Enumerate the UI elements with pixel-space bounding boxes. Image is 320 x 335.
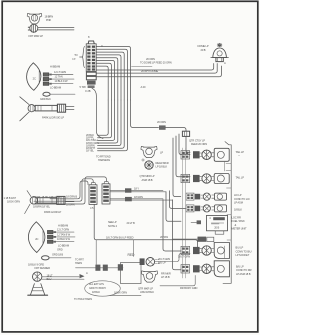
license lamp T3: harness pins [186,193,194,200]
svg-text:18 YEL: 18 YEL [86,149,95,153]
parking lamp P2 bulb [30,197,37,204]
labels: fender lamp F1 [35,266,53,281]
svg-text:C: C [101,44,103,48]
junction box (bottom middle left) [121,263,142,284]
label under ground strap G2 [28,262,44,266]
connector C100 lower section pins [86,72,96,88]
labels: harness band to front lamps [4,195,61,209]
label: M1 circuit name [29,15,54,39]
backup lamp T5: lamp socket housing [212,243,230,259]
stop lamp T2: lamp socket housing [212,174,230,184]
socket/bulb of lamp M1 [28,24,38,32]
bulb B3 (backup) [140,258,160,267]
svg-text:18 BRN: 18 BRN [66,202,75,206]
backup lamp T5: bulb [200,246,212,255]
lamp M3 (rear marker, bottom) [141,271,157,282]
svg-text:RR MKR: RR MKR [161,272,171,276]
svg-text:10 BLK 9 W: 10 BLK 9 W [57,237,71,241]
label column right of bundle [88,35,103,48]
labels: headlamp H1 circuits [50,65,68,90]
svg-text:RED: RED [128,253,136,257]
svg-text:B/U LP: B/U LP [236,265,244,269]
svg-text:GRD 18 B: GRD 18 B [52,253,63,257]
labels: bulb B2 [140,161,169,182]
fender lamp F1 pedestal [28,284,48,296]
svg-text:FRT FENDER: FRT FENDER [35,266,51,270]
svg-text:FEED 20 ORN: FEED 20 ORN [191,142,207,146]
connector C7A (fuel box left pin) [191,220,201,224]
wire: drop to junction blobs [96,240,133,265]
connector C1 of headlamp H1 (3 pins) [43,73,52,86]
wire from lamp M3 area right [160,275,195,285]
parking lamp P1 (left) reflector wings [20,97,29,121]
svg-text:20 TAN: 20 TAN [160,235,168,239]
wire pair from fender lamp F1 [42,274,85,279]
connector C2 of parking lamp P1 (hatched) [57,104,65,112]
backup lamp T6: socket connector [193,265,200,272]
svg-text:18 BRN 18 YEL: 18 BRN 18 YEL [33,205,51,209]
svg-text:QTR MKR LP: QTR MKR LP [138,287,153,291]
label under connectors C4 C5 [90,206,94,210]
svg-text:20 ORN: 20 ORN [146,57,155,61]
wire: short stub with label above dome feed [132,57,172,67]
svg-text:18 DK GRN: 18 DK GRN [114,291,127,295]
wire: loop from C100 bottom down left side of bundle [92,88,103,138]
svg-text:PARK & DIR SIG LP: PARK & DIR SIG LP [42,116,64,120]
wires right of connector C5 to rear [110,186,173,201]
svg-text:LOC RR: LOC RR [232,216,241,220]
svg-text:GRD BLK: GRD BLK [40,97,51,101]
svg-text:18 BLK: 18 BLK [234,207,242,211]
backup lamp T5: harness pins [181,246,190,254]
headlamp H1 (left upper) [27,63,41,91]
svg-text:20 B: 20 B [214,226,219,230]
labels: headlamp H2 circuits [57,224,71,252]
label under connector C100 [80,85,91,93]
svg-text:QTR CTSY LP: QTR CTSY LP [189,138,205,142]
svg-text:REAR MKR: REAR MKR [156,161,169,165]
svg-text:FUEL TANK: FUEL TANK [232,219,245,223]
labels: stop lamp T2 [236,176,245,180]
svg-text:18 GRN B: 18 GRN B [66,194,77,198]
svg-text:LP SOCKET: LP SOCKET [236,253,250,257]
wire: lower cross harness run [76,264,124,271]
label: P1 name [42,116,64,120]
svg-text:QTR MKR LP: QTR MKR LP [140,174,155,178]
connector C8 of headlamp H2 [47,230,56,243]
svg-text:12 LT GRN: 12 LT GRN [57,228,69,232]
stop lamp T2: bulb [200,174,212,183]
svg-text:C 2B: C 2B [85,89,91,93]
svg-text:LP ASM: LP ASM [234,201,243,205]
license lamp T3: socket connector [195,194,200,200]
parking lamp P2 reflector wings [25,191,31,214]
svg-text:METER UNIT: METER UNIT [232,226,247,230]
lamp M1 (front side marker, top left) [27,13,42,23]
lamp M2 (rear qtr marker) [141,146,163,157]
svg-text:TAIL LP: TAIL LP [236,176,245,180]
svg-text:LIC LP: LIC LP [234,193,242,197]
labels: backup lamp T5 [178,246,252,259]
svg-text:12 LT GRN: 12 LT GRN [54,70,66,74]
ground strap G2 below headlamp H2 [42,253,72,260]
svg-text:ASM 18 B: ASM 18 B [142,178,153,182]
labels near fender lamp wires [75,258,88,276]
stop lamp T2: harness pins [181,174,190,182]
parking lamp P1 housing body [35,105,57,111]
svg-text:12 TAN: 12 TAN [55,74,63,78]
svg-text:TO TRLR HARN: TO TRLR HARN [74,297,92,301]
brace and label for connector C100 [72,47,84,68]
wire bundle: fan-out from C100 to vertical run [97,47,131,101]
svg-text:*: * [239,154,240,158]
wire from bulb B3 to harness [155,253,190,261]
svg-text:FRT MKR LP: FRT MKR LP [29,34,44,38]
svg-text:ALL EXT LPS: ALL EXT LPS [89,282,104,286]
license lamp T3: bulb [201,193,210,200]
svg-text:GRD TO BODY: GRD TO BODY [89,286,106,290]
ground strap G1 below headlamp H1 [40,92,75,101]
svg-text:5 708: 5 708 [80,85,87,89]
svg-text:2C: 2C [33,77,36,81]
border frame [2,1,258,332]
lamp housing panel outline [223,142,231,284]
wire: long run from connector C4 to backup lamp row [94,205,197,249]
svg-text:A 20: A 20 [141,85,146,89]
svg-text:I.P.: I.P. [72,57,76,61]
svg-text:18 GRN: 18 GRN [134,195,143,199]
fender lamp F1 bulb [33,272,42,281]
svg-text:12 TAN 8 W: 12 TAN 8 W [57,232,71,236]
labels: fuel tank unit [232,216,247,231]
svg-text:HARN: HARN [75,261,82,265]
svg-text:LP: LP [160,151,163,155]
connector C6 (fuel gauge feed) [173,237,214,242]
svg-text:GRD: GRD [57,248,63,252]
labels right of bulb B3 [158,257,170,265]
parking lamp P2 housing body [37,198,56,203]
svg-text:HARNESS: HARNESS [98,158,110,162]
svg-text:CONN TO B/U: CONN TO B/U [236,250,252,254]
wire: rightmost bundle wire turning right to rear feed [131,100,159,128]
labels: lamp M3 [138,272,171,295]
connector C100 (main harness, 8-way) [86,44,96,72]
connector C7 of parking lamp P2 [57,196,65,204]
svg-text:18 BLK 9 GRD: 18 BLK 9 GRD [28,262,44,266]
svg-text:TAIL LP: TAIL LP [236,150,245,154]
svg-text:DOME LP: DOME LP [198,44,209,48]
labels on long run [106,220,135,257]
svg-text:18 DK GRN: 18 DK GRN [7,200,20,204]
parking lamp P1 bulb [28,105,35,112]
backup lamp T6: bulb [200,264,212,273]
svg-text:18 BLK: 18 BLK [92,290,100,294]
svg-text:CONN TO LIC: CONN TO LIC [234,197,250,201]
wires from connector C8 [56,232,75,242]
backup lamp T5: socket connector [193,247,200,254]
bulb B2 with leader dashes [142,159,153,169]
svg-text:CONN TO RR: CONN TO RR [236,268,252,272]
wire: dome lamp feed pair [97,64,218,89]
wire pair from connector C2 [66,107,74,110]
labels: parking lamp P2 [44,194,77,214]
inline connector on rear feed wire [157,120,186,131]
svg-text:NOTE 4: NOTE 4 [108,224,117,228]
labels: staircase wire stubs [86,133,99,153]
tail lamp T1: lamp socket housing [212,148,230,161]
svg-text:TO FRT END: TO FRT END [96,155,111,159]
svg-text:LP 18 BLK: LP 18 BLK [156,165,168,169]
license lamp T4: lamp socket housing [212,205,227,212]
tail lamp T1: bulb [200,150,212,159]
license lamp T4: bulb [201,205,210,212]
labels: license lamp T3 [234,193,250,205]
license lamp T4: socket connector [195,206,200,212]
harness pin strip verticals [182,148,185,278]
svg-text:TO DOME LP FEED 20 ORN: TO DOME LP FEED 20 ORN [140,61,172,65]
wire with label (bottom middle) [110,291,141,296]
headlamp H2 (left lower) [28,222,45,253]
wire arcs over connectors C4 C5 [34,177,106,204]
fuel tank meter unit box [207,215,228,234]
wire bundle: vertical run and left staircase exits [98,100,128,151]
connector C3 at rear feed drop [182,131,207,146]
wires from connector C1 [52,75,74,84]
wire: third rear run [97,61,226,77]
svg-text:18 Y: 18 Y [134,186,139,190]
svg-text:ASM 18 BLK: ASM 18 BLK [140,290,154,294]
connector C5 (right column) [102,182,110,204]
labels: backup lamp T6 [180,265,252,291]
labels below callout [74,297,92,301]
label under staircase [96,155,111,163]
tail lamp T1: harness pins [181,151,190,159]
backup lamp T6: lamp socket housing [212,261,230,277]
connector C100 cap [88,41,94,44]
svg-text:10 BLK 9 W: 10 BLK 9 W [55,79,69,83]
tail lamp T1: socket connector [193,151,200,158]
svg-text:PARK & DIR LP: PARK & DIR LP [44,210,62,214]
svg-text:1 18 B 18 P: 1 18 B 18 P [4,196,17,200]
svg-text:20 LT B: 20 LT B [127,221,136,225]
label left of C6 [160,235,168,239]
svg-text:B/U LP: B/U LP [236,246,244,250]
svg-text:SEE LP: SEE LP [108,220,117,224]
svg-text:HI BEAM: HI BEAM [50,65,60,69]
svg-text:20 WHT DOME: 20 WHT DOME [141,69,158,73]
labels: tail lamp T1 [236,150,245,158]
stop lamp T2: socket connector [193,175,200,182]
svg-text:20 ORN: 20 ORN [157,120,166,124]
svg-text:18 BRN: 18 BRN [45,15,54,19]
wire group: center vertical rear harness [163,134,190,270]
svg-text:LP 18 B: LP 18 B [161,275,170,279]
label: dome lamp [198,44,209,52]
svg-text:LP ASM 18 B: LP ASM 18 B [236,272,251,276]
svg-text:RR BODY GRD: RR BODY GRD [180,286,197,290]
svg-text:TO: TO [74,53,77,57]
svg-text:HI BEAM: HI BEAM [58,224,68,228]
labels: lamp T4 [234,207,242,211]
svg-text:PNK: PNK [46,18,51,22]
connector C4 (left column) [89,183,97,205]
wire pair from lamp M1 to harness [38,27,74,30]
callout bubble (ground distribution) [85,281,121,296]
svg-text:20 B: 20 B [201,48,206,52]
svg-text:18 LT GRN B/U LP FEED: 18 LT GRN B/U LP FEED [106,236,134,240]
dome lamp D1 [211,43,229,61]
svg-text:LO BEAM: LO BEAM [58,243,69,247]
svg-text:20 LT GRN: 20 LT GRN [158,257,170,261]
svg-text:2C: 2C [35,237,38,241]
license lamp T3: lamp socket housing [212,193,227,200]
backup lamp T6: harness pins [181,265,190,273]
svg-text:TO FRT: TO FRT [75,258,84,262]
svg-text:18 LT GRN: 18 LT GRN [178,255,190,259]
wire pair from connector C7 [65,199,74,202]
license lamp T4: harness pins [186,205,194,212]
svg-text:LO BEAM: LO BEAM [50,85,61,89]
